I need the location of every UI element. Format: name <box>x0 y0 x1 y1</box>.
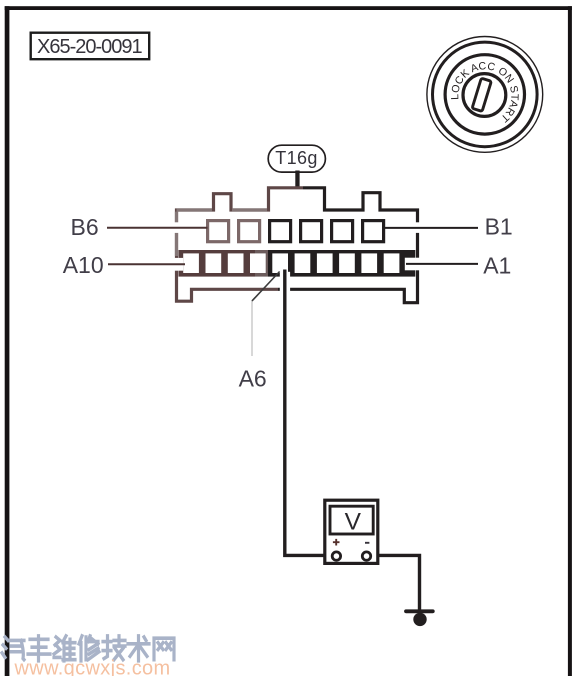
pin B5 <box>239 221 260 242</box>
pin A2 <box>361 253 377 273</box>
ground symbol <box>404 609 435 626</box>
terminal - <box>362 552 370 560</box>
leader line for A6 <box>251 301 253 357</box>
connector T16g outline left part (faded maroon) <box>177 188 304 301</box>
pin A7 <box>250 253 266 273</box>
bottom pin row band A10..A1 <box>179 250 416 277</box>
char 车 <box>28 636 50 661</box>
svg-text:www.qcwxjs.com: www.qcwxjs.com <box>14 658 171 676</box>
voltmeter V <box>325 500 378 563</box>
pin A5 <box>295 253 311 273</box>
pin A1 <box>384 253 400 273</box>
pin B3 <box>301 221 322 242</box>
svg-text:A1: A1 <box>483 253 511 279</box>
pin B1 <box>363 221 384 242</box>
svg-text:T16g: T16g <box>275 148 318 168</box>
label box X65-20-0091 <box>31 33 150 60</box>
char 修 <box>79 636 99 661</box>
wire from voltmeter - to ground <box>372 555 420 612</box>
svg-text:V: V <box>345 509 362 536</box>
plus mark <box>333 539 340 546</box>
terminal + <box>332 552 340 560</box>
connector label T16g oval <box>268 145 325 189</box>
connector T16g outline right part (black) <box>278 188 418 303</box>
svg-text:A10: A10 <box>63 252 104 278</box>
char 术 <box>128 636 149 661</box>
svg-text:X65-20-0091: X65-20-0091 <box>37 36 143 58</box>
char 网 <box>154 638 174 659</box>
white gaps where wires pass edges <box>174 222 422 292</box>
pin A3 <box>339 253 355 273</box>
wire from pin A6 down to voltmeter + <box>285 270 331 556</box>
watermark chinese characters 汽车维修技术网 <box>2 636 174 661</box>
svg-text:B6: B6 <box>71 214 99 240</box>
svg-text:B1: B1 <box>485 214 513 240</box>
char 维 <box>54 636 75 661</box>
wire A1 lead <box>406 263 478 265</box>
pin A8 <box>228 253 244 273</box>
pin A4 <box>317 253 333 273</box>
band top edge gray overlay <box>183 250 249 253</box>
pin B2 <box>332 221 353 242</box>
pin A10 <box>183 253 199 273</box>
pin A6 <box>272 253 288 273</box>
wire A10 lead <box>108 263 185 265</box>
key slot <box>472 78 491 111</box>
char 汽 <box>2 637 24 660</box>
top pin row B6..B1 <box>208 221 384 242</box>
connector outline gray overlay segments <box>177 210 268 256</box>
char 技 <box>103 636 125 660</box>
pin B4 <box>270 221 291 242</box>
svg-text:A6: A6 <box>239 366 267 392</box>
ignition switch icon <box>427 37 543 153</box>
wire B6 lead <box>107 227 208 229</box>
pin B6 <box>208 221 229 242</box>
pin A9 <box>206 253 222 273</box>
minus mark <box>365 542 369 544</box>
wire B1 lead <box>384 227 479 229</box>
